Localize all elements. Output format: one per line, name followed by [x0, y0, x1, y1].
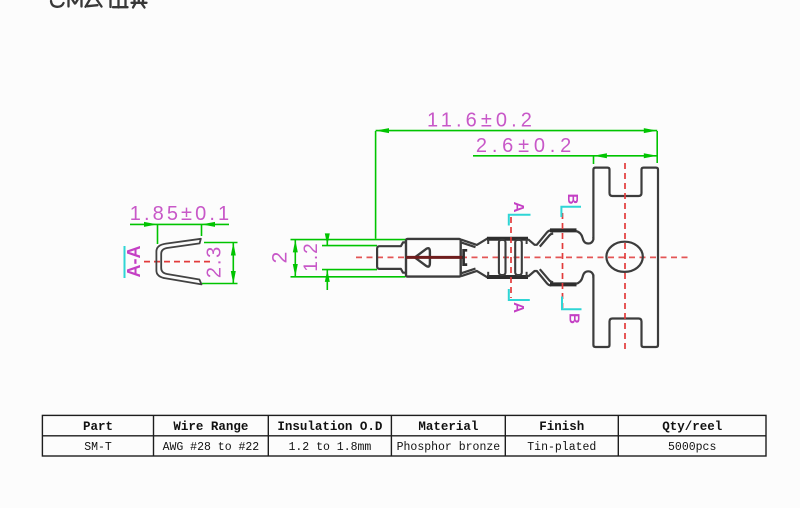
conductor crimp barrel top [487, 237, 528, 241]
table data row [84, 441, 716, 454]
conductor crimp barrel bottom [487, 275, 528, 279]
triangle marker in box [415, 248, 430, 266]
svg-text:1.2 to 1.8mm: 1.2 to 1.8mm [288, 441, 371, 454]
svg-text:Insulation O.D: Insulation O.D [277, 420, 383, 434]
dimension text 1.2 [301, 242, 322, 271]
retention lance [464, 250, 468, 264]
svg-text:2: 2 [269, 252, 292, 264]
section line A vertical centerline [510, 217, 512, 298]
dimension line 1.85 [130, 222, 229, 244]
svg-text:Part: Part [83, 420, 113, 434]
svg-text:2.6±0.2: 2.6±0.2 [476, 135, 576, 157]
svg-text:SM-T: SM-T [84, 441, 112, 454]
svg-text:1.85±0.1: 1.85±0.1 [130, 203, 233, 225]
carrier vertical centerline [624, 163, 626, 352]
insulation crimp top bar [550, 228, 577, 232]
step to carrier (bottom) [576, 271, 593, 284]
carrier pilot hole (ellipse) [606, 242, 642, 272]
svg-text:Finish: Finish [539, 420, 584, 434]
dimension 11.6±0.2 text [427, 109, 536, 131]
section A bottom marker [509, 289, 530, 300]
U-clip cross-section (opens to the right) [156, 239, 201, 285]
table grid [42, 415, 766, 456]
main horizontal centerline [356, 256, 688, 258]
title text (clipped bottom of "SM male terminal" chinese heading) [51, 0, 147, 8]
svg-text:B: B [564, 194, 581, 205]
svg-text:5000pcs: 5000pcs [668, 441, 716, 454]
barrel end ticks [488, 239, 526, 277]
svg-text:A-A: A-A [124, 246, 144, 278]
transition barrel to insulation crimp (bottom) [528, 269, 553, 285]
transition barrel to insulation crimp (top) [528, 230, 553, 246]
section B bottom marker [562, 297, 582, 310]
centerline of A-A view [144, 261, 214, 263]
dimension line 2.3 [202, 243, 238, 285]
section A top marker [509, 215, 531, 226]
dimension line 11.6 [376, 128, 658, 239]
dimension text 2 [269, 252, 292, 264]
svg-text:11.6±0.2: 11.6±0.2 [427, 109, 536, 131]
svg-text:1.2: 1.2 [301, 242, 322, 271]
svg-text:Qty/reel: Qty/reel [662, 420, 722, 434]
dark red contact line [406, 256, 465, 259]
section B top label [564, 194, 581, 205]
table header row [83, 420, 722, 434]
insulation crimp bottom bar [550, 282, 577, 286]
dimension line 2.6 [473, 153, 657, 164]
section label A-A [124, 246, 144, 278]
dimension 1.85±0.1 text [130, 203, 233, 225]
dimension 2.6±0.2 text [476, 135, 576, 157]
svg-text:Tin-plated: Tin-plated [527, 441, 596, 454]
svg-text:Phosphor bronze: Phosphor bronze [397, 441, 501, 454]
svg-text:B: B [566, 313, 583, 324]
section A bottom label [510, 302, 527, 313]
dimension text 2.3 [204, 245, 226, 278]
svg-text:Wire Range: Wire Range [173, 420, 248, 434]
barrel slot 2 [515, 240, 522, 275]
terminal pin tip [377, 242, 405, 272]
dimension line 1.2 (pin height) [322, 233, 377, 290]
section B bottom label [566, 313, 583, 324]
svg-text:A: A [510, 202, 527, 213]
contact box [406, 239, 461, 277]
section B top marker [561, 207, 581, 217]
svg-text:AWG #28 to #22: AWG #28 to #22 [163, 441, 260, 454]
carrier strip outline [593, 168, 658, 347]
section A top label [510, 202, 527, 213]
dimension line 2 (box height) [291, 240, 406, 277]
transition wings box to barrel (bottom) [461, 269, 488, 278]
transition wings box to barrel (top) [461, 238, 488, 247]
section line B vertical centerline [562, 213, 564, 308]
svg-text:Material: Material [418, 420, 478, 434]
cyan line beside A-A label [124, 246, 126, 278]
svg-text:2.3: 2.3 [204, 245, 226, 278]
barrel slot 1 [499, 240, 506, 275]
svg-text:A: A [510, 302, 527, 313]
step to carrier (top) [576, 231, 593, 244]
